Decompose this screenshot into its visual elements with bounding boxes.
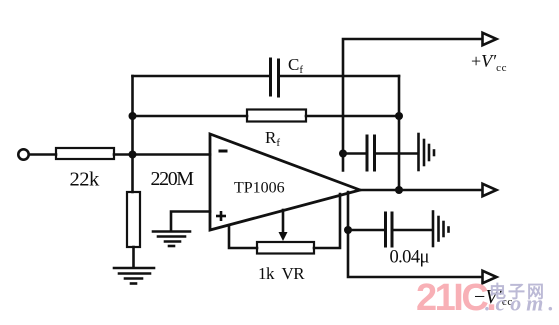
wire node A vertical	[131, 76, 134, 192]
svg-text:Rf: Rf	[265, 128, 280, 149]
wire to decoupling cap	[343, 152, 366, 155]
junction dot at output	[395, 186, 403, 194]
node A junction dot	[129, 151, 137, 159]
junction dot 0.04u	[344, 226, 352, 234]
wire Rf left	[133, 115, 248, 118]
svg-text:220M: 220M	[151, 168, 195, 190]
wire Cf right	[279, 75, 399, 78]
wire 0.04u to ground	[393, 229, 432, 232]
junction dot Rf right	[395, 112, 403, 120]
+Vcc arrowhead	[483, 33, 497, 45]
ground (sideways, - rail)	[433, 212, 449, 247]
wire input to 22k	[29, 153, 56, 156]
op-amp U1 TP1006	[210, 134, 360, 230]
potentiometer 1k VR	[257, 242, 314, 254]
resistor 220M	[127, 192, 140, 247]
junction dot +Vcc decoupling	[339, 150, 347, 158]
wire 22k to op-amp minus input	[114, 153, 210, 156]
-Vcc rail wire	[348, 192, 481, 277]
output arrowhead	[483, 184, 497, 196]
wire pot left	[229, 226, 257, 248]
input terminal	[18, 149, 28, 159]
decoupling capacitor (+)	[367, 136, 375, 170]
wire Rf right	[306, 115, 399, 118]
wire pot right	[314, 194, 340, 248]
wire cap to ground	[375, 152, 417, 155]
ground (+ input)	[153, 232, 190, 247]
potentiometer wiper arrowhead	[279, 232, 288, 241]
resistor 22k	[56, 148, 114, 159]
wire Cf left	[133, 75, 271, 78]
svg-text:21IC.: 21IC.	[416, 277, 494, 319]
op-amp minus sign	[219, 150, 228, 153]
wire to 0.04u cap	[348, 229, 384, 232]
svg-text:Cf: Cf	[288, 55, 303, 76]
wire feedback vertical to output	[398, 76, 401, 190]
node junction dot at Rf	[129, 112, 137, 120]
ground (sideways, + rail)	[419, 134, 435, 170]
resistor Rf	[247, 110, 306, 122]
-Vcc arrowhead	[483, 271, 497, 283]
+Vcc rail wire	[343, 39, 481, 171]
op-amp plus sign	[216, 211, 226, 221]
svg-text:.com.: .com.	[485, 291, 559, 316]
wire 220M to ground	[132, 247, 135, 267]
svg-text:+V′cc: +V′cc	[471, 51, 507, 74]
ground (below 220M)	[114, 268, 154, 284]
capacitor Cf	[271, 59, 279, 96]
watermark 21IC dianziwang .com	[416, 277, 559, 319]
svg-text:TP1006: TP1006	[234, 180, 285, 197]
capacitor 0.04u	[386, 213, 393, 246]
svg-text:22k: 22k	[70, 169, 101, 191]
svg-text:1k VR: 1k VR	[258, 264, 305, 283]
output wire	[360, 189, 481, 192]
wire + input	[171, 212, 210, 231]
potentiometer wiper wire	[282, 210, 285, 234]
svg-text:0.04μ: 0.04μ	[390, 248, 430, 268]
